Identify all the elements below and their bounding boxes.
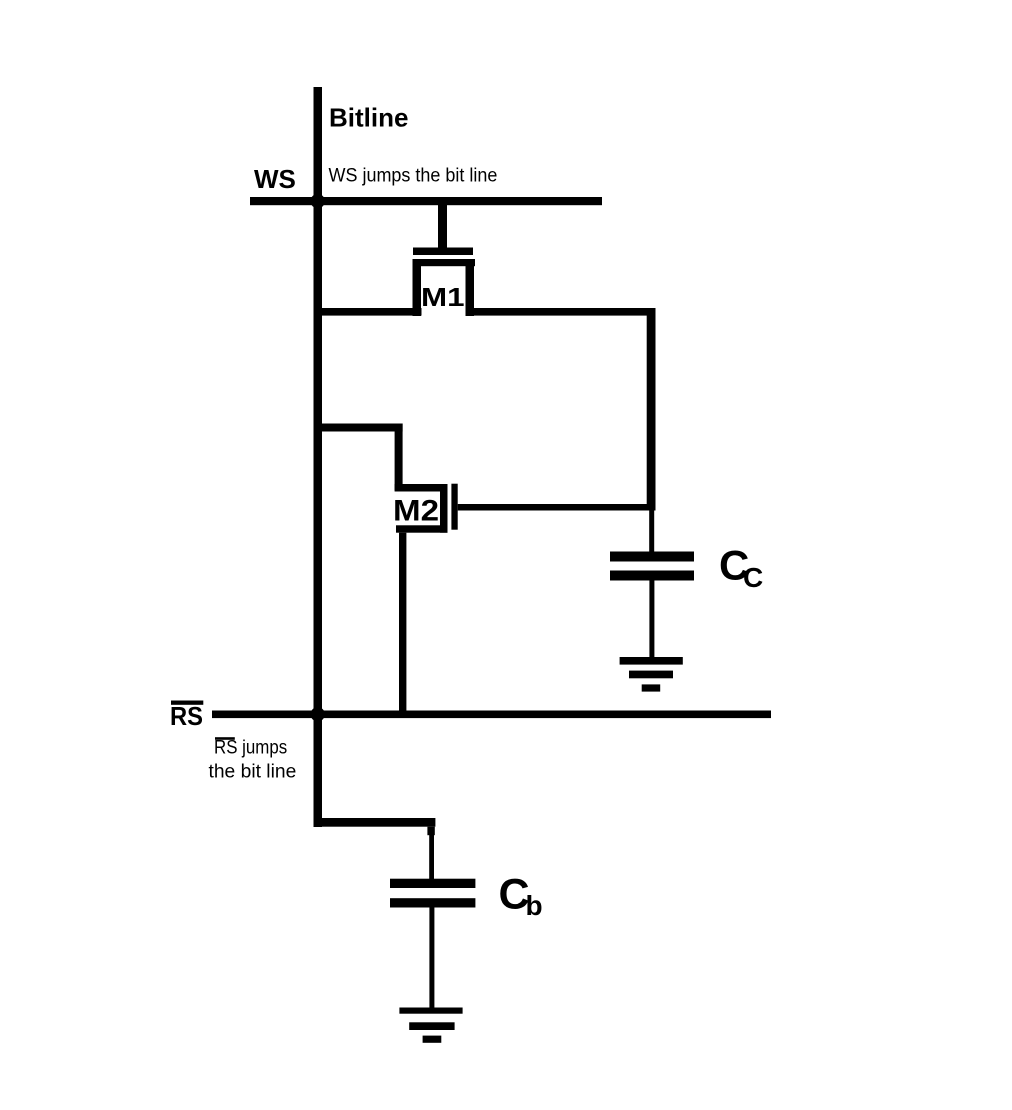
wire: WS word line horizontal <box>250 197 602 205</box>
wire: right rail to Cc top plate (thin) <box>649 510 654 552</box>
svg-text:WS jumps the bit line: WS jumps the bit line <box>329 166 498 187</box>
wire: Bitline bottom horizontal to Cb <box>314 818 436 827</box>
wire: M2 source vertical down to RS <box>399 533 406 718</box>
transistor M2 <box>395 484 458 533</box>
capacitor Cb <box>390 879 475 908</box>
svg-text:RS jumps: RS jumps <box>214 738 287 759</box>
wire: stub to Cb top plate (thin) <box>429 834 434 879</box>
wire: M2 gate to right rail <box>458 504 656 511</box>
wire: Cc bottom plate to ground (thin) <box>649 580 654 657</box>
junction: WS x Bitline <box>311 194 325 208</box>
transistor M1 <box>413 200 476 316</box>
wire: Bitline vertical net <box>314 87 323 827</box>
wire: right vertical rail (M1 drain down to M2 gate / Cc) <box>647 308 656 511</box>
svg-text:the bit line: the bit line <box>209 761 297 782</box>
ground: below Cc <box>620 657 683 692</box>
wire: Bitline branch to M2 drain (horizontal) <box>314 424 403 432</box>
wire: Cb bottom plate to ground (thin) <box>429 908 434 1008</box>
svg-text:C: C <box>743 562 763 593</box>
wire: M1 drain to right rail <box>466 308 656 316</box>
svg-text:WS: WS <box>254 164 296 194</box>
wire: Bitline to M1 source <box>314 308 422 316</box>
svg-text:b: b <box>526 890 543 921</box>
svg-text:M1: M1 <box>421 282 465 312</box>
note: RS jumps (with overline) <box>214 737 287 758</box>
svg-text:Bitline: Bitline <box>329 103 408 133</box>
wire: RS row select line horizontal <box>212 711 771 719</box>
capacitor Cc <box>610 552 694 581</box>
ground: below Cb <box>399 1008 462 1043</box>
label: RS (with overline) <box>170 701 203 732</box>
wire: M2 drain vertical <box>395 424 403 491</box>
svg-text:RS: RS <box>170 701 203 731</box>
wire: Cb stub <box>427 827 434 836</box>
junction: RS x Bitline <box>311 707 325 721</box>
svg-text:M2: M2 <box>393 495 439 528</box>
